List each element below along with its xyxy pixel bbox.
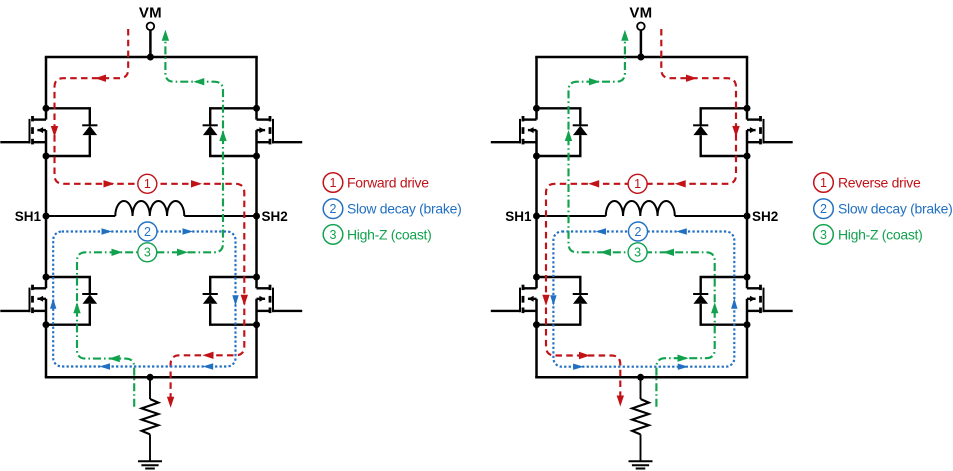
junction dot sense node (right) (637, 374, 644, 381)
arrow path1 left above bottom rail (left bridge) (203, 352, 214, 359)
arrow path3 up through D1 (right bridge) (565, 130, 572, 141)
arrow path1 left after node 1 (right bridge) (588, 180, 599, 187)
svg-text:3: 3 (820, 228, 827, 242)
wire right rail bottom (left) (255, 325, 258, 378)
arrow path3 left before node 3 (right bridge) (600, 249, 611, 256)
wire left rail upper (right) (535, 57, 538, 108)
arrow path3 right above bottom rail (right bridge) (678, 355, 689, 362)
current path 2 blue: slow decay loop (left bridge) (53, 232, 235, 367)
arrow path1 down to ground (right bridge) (617, 396, 624, 407)
wire body-diode branch of high-side left NMOS (left) (46, 108, 90, 156)
junction dot drain of high-side right NMOS (left) (253, 105, 260, 112)
svg-text:Forward drive: Forward drive (347, 175, 429, 191)
wire left rail upper (left) (45, 57, 48, 108)
transistor low-side right NMOS (left) (257, 277, 303, 325)
wire right rail bottom (right) (746, 325, 749, 378)
arrow path1 left before node 1 (right bridge) (675, 180, 686, 187)
arrow path1 down through Q3 (right bridge) (542, 295, 549, 306)
wire body-diode branch of low-side right NMOS (left) (210, 277, 256, 325)
arrow path2 left on bottom left segment (left bridge) (100, 363, 111, 369)
wire left rail bottom (right) (535, 325, 538, 378)
node marker 1 on red path (left bridge) (138, 174, 157, 193)
node marker 2 on blue path (left bridge) (138, 222, 157, 241)
diode body diode of low-side right NMOS (left) (203, 294, 218, 304)
node SH2 junction dot (left) (253, 213, 260, 220)
wire left rail lower (left) (45, 216, 48, 277)
arrow path2 down left side (right bridge) (550, 295, 556, 306)
node marker 2 on blue path (right bridge) (629, 222, 648, 241)
wire body-diode branch of high-side left NMOS (right) (537, 108, 581, 156)
svg-text:3: 3 (144, 246, 151, 260)
junction dot source of low-side right NMOS (left) (253, 321, 260, 328)
arrow path2 left on bottom right segment (left bridge) (203, 363, 214, 369)
junction dot drain of low-side left NMOS (left) (43, 274, 50, 281)
wire body-diode branch of low-side right NMOS (right) (701, 277, 747, 325)
terminal VM (right bridge) (637, 23, 645, 31)
junction dot VM / top rail (left) (147, 54, 154, 61)
inductor motor winding (left) (115, 201, 184, 216)
svg-text:2: 2 (820, 202, 827, 216)
svg-text:Slow decay (brake): Slow decay (brake) (347, 201, 461, 217)
legend marker 2 (near Forward drive) (323, 199, 343, 219)
svg-text:SH1: SH1 (505, 209, 532, 224)
arrow path3 up through D2 (left bridge) (219, 130, 226, 141)
arrow path1 left at top rail (left bridge) (95, 75, 106, 82)
svg-text:3: 3 (330, 228, 337, 242)
transistor high-side right NMOS (left) (257, 108, 303, 156)
wire sense node to resistor (left) (149, 377, 151, 399)
wire left rail lower (right) (535, 216, 538, 277)
wire resistor to ground (right) (640, 434, 642, 461)
wire right rail lower (right) (746, 216, 749, 277)
svg-text:VM: VM (629, 5, 652, 22)
svg-text:1: 1 (634, 177, 641, 191)
junction dot source of high-side right NMOS (left) (253, 153, 260, 160)
arrow path3 up through D4 (right bridge) (711, 302, 718, 313)
wire right rail lower (left) (255, 216, 258, 277)
diode body diode of high-side right NMOS (left) (203, 125, 218, 135)
junction dot drain of low-side left NMOS (right) (533, 274, 540, 281)
diode body diode of high-side left NMOS (left) (82, 125, 97, 135)
legend marker 1 (Reverse drive) (814, 173, 834, 193)
junction dot source of low-side left NMOS (right) (533, 321, 540, 328)
svg-text:Slow decay (brake): Slow decay (brake) (838, 201, 952, 217)
wire resistor to ground (left) (149, 434, 151, 461)
arrow path3 right toward VM (right bridge) (589, 78, 600, 85)
svg-text:3: 3 (634, 246, 641, 260)
transistor low-side left NMOS (right) (491, 277, 537, 325)
junction dot source of low-side right NMOS (right) (744, 321, 751, 328)
node SH2 junction dot (right) (744, 213, 751, 220)
arrow path2 up left side (left bridge) (50, 298, 56, 309)
wire body-diode branch of high-side right NMOS (left) (210, 108, 256, 156)
arrow path3 up into VM (left bridge) (162, 30, 169, 41)
wire motor winding to SH2 (right) (675, 215, 747, 217)
current path 2 blue: slow decay loop (right bridge) (553, 232, 734, 367)
arrow path2 right before node 2 (left bridge) (102, 228, 113, 234)
junction dot sense node (left) (147, 374, 154, 381)
diode body diode of high-side left NMOS (right) (573, 125, 588, 135)
wire top rail (right) (535, 56, 748, 59)
legend marker 3 (near Forward drive) (323, 225, 343, 245)
wire motor winding to SH2 (left) (184, 215, 256, 217)
svg-text:SH1: SH1 (15, 209, 42, 224)
svg-text:High-Z (coast): High-Z (coast) (838, 227, 922, 243)
ground (right) (629, 461, 653, 468)
svg-text:1: 1 (330, 176, 337, 190)
resistor sense resistor (right) (632, 399, 649, 434)
svg-text:1: 1 (820, 176, 827, 190)
svg-text:SH2: SH2 (262, 209, 288, 224)
node marker 3 on green path (right bridge) (628, 243, 647, 262)
svg-text:SH2: SH2 (752, 209, 778, 224)
current path 3 green: high-Z coast route (right bridge) (569, 41, 715, 407)
diode body diode of low-side left NMOS (right) (573, 294, 588, 304)
current path 3 green: high-Z coast route (left bridge) (77, 41, 223, 407)
junction dot drain of low-side right NMOS (right) (744, 274, 751, 281)
current path 1 red: forward drive route (left bridge) (55, 29, 245, 397)
svg-text:Reverse drive: Reverse drive (838, 175, 921, 191)
wire top rail (left) (45, 56, 258, 59)
svg-text:1: 1 (144, 177, 151, 191)
transistor low-side right NMOS (right) (747, 277, 793, 325)
transistor high-side left NMOS (left) (0, 108, 46, 156)
legend marker 3 (near Reverse drive) (814, 225, 834, 245)
arrow path2 down right side (left bridge) (232, 295, 238, 306)
node SH1 junction dot (left) (43, 213, 50, 220)
svg-text:2: 2 (144, 225, 151, 239)
arrow path1 down through Q4 (left bridge) (241, 295, 248, 306)
wire SH1 to motor winding (left) (46, 215, 115, 217)
svg-text:2: 2 (635, 225, 642, 239)
arrow path1 right after node 1 (left bridge) (191, 180, 202, 187)
junction dot VM / top rail (right) (637, 54, 644, 61)
ground (left) (138, 461, 162, 468)
arrow path3 right before node 3 (left bridge) (112, 249, 123, 256)
arrow path3 left toward VM (left bridge) (193, 78, 204, 85)
arrow path3 left after node 3 (right bridge) (663, 249, 674, 256)
terminal VM (left bridge) (147, 23, 155, 31)
inductor motor winding (right) (606, 201, 675, 216)
wire bottom rail (right) (535, 376, 748, 379)
wire sense node to resistor (right) (640, 377, 642, 399)
junction dot drain of high-side left NMOS (right) (533, 105, 540, 112)
wire body-diode branch of low-side left NMOS (left) (46, 277, 90, 325)
transistor high-side right NMOS (right) (747, 108, 793, 156)
wire bottom rail (left) (45, 376, 258, 379)
legend marker 2 (near Reverse drive) (814, 199, 834, 219)
wire right rail upper (right) (746, 57, 749, 108)
arrow path2 right on bottom left segment (right bridge) (573, 364, 584, 370)
diode body diode of high-side right NMOS (right) (693, 125, 708, 135)
wire right rail upper (left) (255, 57, 258, 108)
arrow path1 right before node 1 (left bridge) (104, 180, 115, 187)
node SH1 junction dot (right) (533, 213, 540, 220)
junction dot source of high-side left NMOS (right) (533, 153, 540, 160)
diode body diode of low-side right NMOS (right) (693, 294, 708, 304)
wire SH1 to motor winding (right) (537, 215, 606, 217)
wire left rail bottom (left) (45, 325, 48, 378)
junction dot source of high-side left NMOS (left) (43, 153, 50, 160)
arrow path3 up through D3 (left bridge) (73, 302, 80, 313)
current path 1 red: reverse drive route (right bridge) (546, 29, 736, 396)
junction dot drain of high-side left NMOS (left) (43, 105, 50, 112)
svg-text:VM: VM (139, 5, 162, 22)
arrow path3 right after node 3 (left bridge) (177, 249, 188, 256)
wire right rail middle (left) (255, 156, 258, 216)
wire left rail middle (right) (535, 156, 538, 216)
arrow path2 right on bottom right segment (right bridge) (678, 364, 689, 370)
transistor low-side left NMOS (left) (0, 277, 46, 325)
svg-text:2: 2 (330, 202, 337, 216)
arrow path2 left after node 2 (right bridge) (596, 228, 607, 234)
transistor high-side left NMOS (right) (491, 108, 537, 156)
wire body-diode branch of high-side right NMOS (right) (701, 108, 747, 156)
arrow path1 right above bottom rail (right bridge) (579, 352, 590, 359)
arrow path3 up into VM (right bridge) (621, 30, 628, 41)
wire left rail middle (left) (45, 156, 48, 216)
svg-text:High-Z (coast): High-Z (coast) (347, 227, 431, 243)
wire right rail middle (right) (746, 156, 749, 216)
node marker 1 on red path (right bridge) (628, 174, 647, 193)
junction dot source of low-side left NMOS (left) (43, 321, 50, 328)
resistor sense resistor (left) (142, 399, 159, 434)
wire body-diode branch of low-side left NMOS (right) (537, 277, 581, 325)
legend marker 1 (Forward drive) (323, 173, 343, 193)
node marker 3 on green path (left bridge) (138, 243, 157, 262)
arrow path1 down to ground (left bridge) (167, 397, 174, 408)
junction dot drain of low-side right NMOS (left) (253, 274, 260, 281)
junction dot source of high-side right NMOS (right) (744, 153, 751, 160)
arrow path2 right after node 2 (left bridge) (183, 228, 194, 234)
wire VM terminal to top rail (right) (640, 30, 643, 57)
arrow path1 down through Q2 (right bridge) (732, 126, 739, 137)
arrow path3 left above bottom rail (left bridge) (109, 355, 120, 362)
wire VM terminal to top rail (left) (149, 30, 152, 57)
arrow path2 up right side (right bridge) (731, 298, 737, 309)
junction dot drain of high-side right NMOS (right) (744, 105, 751, 112)
arrow path1 right at top rail (right bridge) (686, 75, 697, 82)
arrow path1 down through Q1 (left bridge) (51, 126, 58, 137)
diode body diode of low-side left NMOS (left) (82, 294, 97, 304)
arrow path2 left before node 2 (right bridge) (676, 228, 687, 234)
